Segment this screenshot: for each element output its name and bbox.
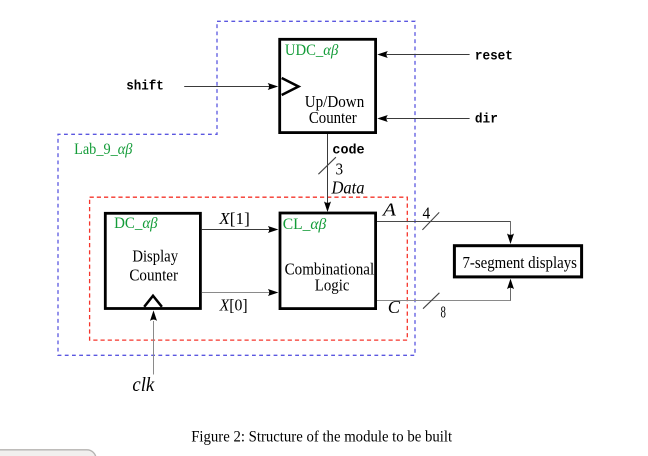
svg-text:4: 4: [423, 203, 431, 222]
svg-text:8: 8: [441, 303, 446, 322]
arrowhead dir: [377, 115, 388, 122]
svg-text:X[0]: X[0]: [219, 296, 248, 315]
bus slash A: [422, 212, 439, 230]
svg-text:CL_αβ: CL_αβ: [283, 214, 327, 233]
svg-text:UDC_αβ: UDC_αβ: [285, 40, 339, 59]
svg-text:A: A: [382, 199, 397, 219]
svg-text:Counter: Counter: [129, 266, 178, 285]
block U2 Display Counter: [105, 213, 200, 308]
wire C vertical: [510, 288, 512, 301]
wire shift: [184, 86, 269, 88]
svg-text:X[1]: X[1]: [218, 209, 250, 228]
svg-text:7-segment displays: 7-segment displays: [462, 253, 577, 272]
svg-text:3: 3: [336, 160, 344, 179]
wire reset: [387, 54, 470, 56]
block U1 Up/Down Counter: [280, 39, 376, 132]
arrowhead code into CL: [324, 202, 331, 213]
wire code bus: [327, 134, 329, 203]
svg-text:Display: Display: [132, 247, 178, 266]
clock wedge U1: [282, 78, 299, 95]
svg-text:dir: dir: [475, 111, 498, 127]
arrowhead X[1]: [268, 226, 279, 233]
wire C horizontal: [377, 300, 511, 302]
wire clk: [153, 321, 155, 375]
status bubble bottom-left: [0, 450, 96, 456]
svg-text:Counter: Counter: [309, 108, 357, 127]
svg-text:clk: clk: [132, 375, 154, 396]
svg-text:Lab_9_αβ: Lab_9_αβ: [74, 139, 133, 158]
block 7-segment displays: [454, 246, 581, 277]
dashed boundary display subsystem (red): [90, 197, 408, 340]
bus slash C: [423, 293, 439, 309]
svg-text:reset: reset: [475, 49, 513, 65]
svg-text:Logic: Logic: [315, 276, 350, 295]
arrowhead X[0]: [268, 289, 279, 296]
dashed boundary Lab_9 (blue): [58, 21, 415, 355]
wire X[1]: [202, 229, 269, 231]
wire A horizontal: [377, 221, 511, 223]
wire X[0]: [202, 292, 269, 294]
arrowhead reset: [377, 51, 388, 58]
clock wedge U2: [144, 296, 162, 307]
arrowhead A into displays: [507, 234, 514, 245]
wire A vertical: [510, 221, 512, 235]
svg-text:DC_αβ: DC_αβ: [114, 213, 158, 232]
svg-text:Data: Data: [331, 178, 365, 198]
wire dir: [387, 118, 470, 120]
svg-text:shift: shift: [126, 79, 164, 95]
arrowhead C into displays: [507, 279, 514, 290]
svg-text:code: code: [332, 143, 364, 159]
svg-text:Figure 2: Structure of the mod: Figure 2: Structure of the module to be …: [191, 428, 453, 445]
arrowhead clk into DC: [150, 310, 157, 321]
bus slash code: [318, 157, 336, 174]
block U3 Combinational Logic: [280, 213, 376, 309]
arrowhead shift: [268, 83, 279, 90]
